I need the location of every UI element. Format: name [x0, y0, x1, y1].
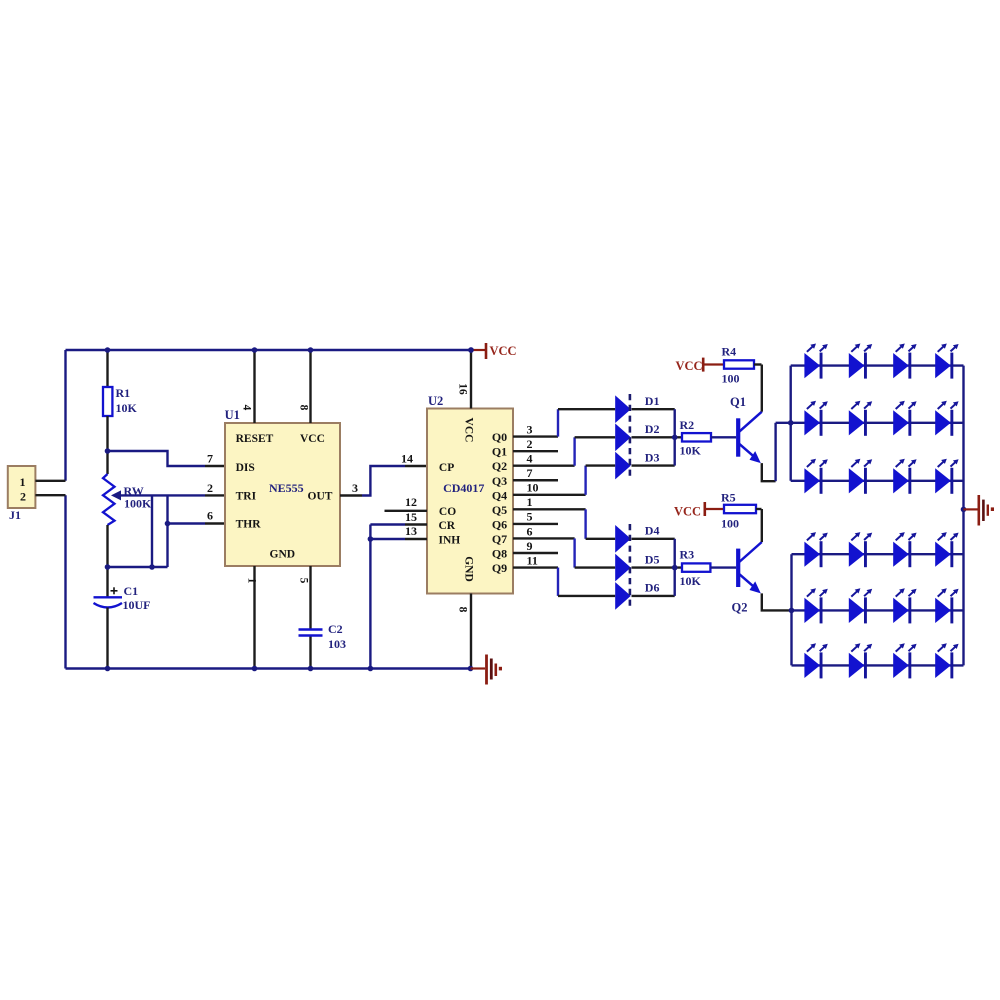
- svg-text:R1: R1: [116, 386, 131, 400]
- svg-text:8: 8: [457, 607, 469, 613]
- svg-text:14: 14: [401, 452, 413, 466]
- svg-text:4: 4: [241, 405, 253, 411]
- svg-text:CO: CO: [439, 506, 456, 518]
- svg-text:Q1: Q1: [730, 395, 746, 409]
- svg-text:5: 5: [527, 510, 533, 524]
- svg-text:D2: D2: [645, 422, 660, 436]
- svg-text:R4: R4: [722, 345, 737, 359]
- svg-text:OUT: OUT: [308, 491, 333, 503]
- svg-text:D5: D5: [645, 552, 660, 566]
- svg-text:7: 7: [527, 466, 533, 480]
- svg-text:1: 1: [246, 578, 258, 584]
- svg-text:2: 2: [20, 490, 26, 504]
- svg-text:11: 11: [527, 553, 538, 567]
- svg-text:4: 4: [527, 452, 533, 466]
- svg-text:6: 6: [527, 524, 533, 538]
- svg-text:INH: INH: [439, 534, 461, 546]
- svg-text:8: 8: [298, 405, 310, 411]
- svg-text:Q2: Q2: [732, 601, 748, 615]
- svg-text:R2: R2: [680, 418, 695, 432]
- svg-text:VCC: VCC: [674, 505, 701, 519]
- svg-text:Q7: Q7: [492, 532, 507, 546]
- svg-text:Q2: Q2: [492, 459, 507, 473]
- svg-text:6: 6: [207, 509, 213, 523]
- svg-text:100K: 100K: [124, 497, 152, 511]
- svg-text:R5: R5: [721, 491, 736, 505]
- svg-text:J1: J1: [9, 508, 21, 522]
- svg-text:D3: D3: [645, 450, 660, 464]
- svg-text:100: 100: [722, 371, 740, 385]
- svg-text:NE555: NE555: [269, 481, 304, 495]
- svg-text:TRI: TRI: [236, 491, 257, 503]
- svg-text:D6: D6: [645, 581, 660, 595]
- svg-text:D1: D1: [645, 394, 660, 408]
- svg-text:Q6: Q6: [492, 517, 507, 531]
- svg-text:10K: 10K: [116, 401, 138, 415]
- svg-text:10: 10: [527, 481, 539, 495]
- svg-text:3: 3: [527, 422, 533, 436]
- svg-text:12: 12: [405, 495, 417, 509]
- svg-text:VCC: VCC: [490, 344, 517, 358]
- svg-text:100: 100: [721, 517, 739, 531]
- svg-text:D4: D4: [645, 524, 660, 538]
- svg-text:RESET: RESET: [236, 433, 274, 445]
- svg-text:10K: 10K: [680, 574, 702, 588]
- svg-text:U2: U2: [428, 394, 443, 408]
- svg-text:VCC: VCC: [676, 359, 703, 373]
- svg-text:Q4: Q4: [492, 488, 507, 502]
- svg-text:16: 16: [457, 383, 469, 395]
- svg-text:7: 7: [207, 451, 213, 465]
- svg-text:5: 5: [298, 578, 310, 584]
- svg-text:15: 15: [405, 510, 417, 524]
- svg-text:2: 2: [527, 437, 533, 451]
- svg-text:Q1: Q1: [492, 445, 507, 459]
- svg-text:1: 1: [20, 475, 26, 489]
- svg-text:Q8: Q8: [492, 547, 507, 561]
- svg-text:13: 13: [405, 524, 417, 538]
- svg-text:VCC: VCC: [463, 418, 475, 443]
- svg-text:C1: C1: [124, 584, 139, 598]
- svg-text:THR: THR: [236, 518, 262, 530]
- svg-text:Q0: Q0: [492, 430, 507, 444]
- svg-text:DIS: DIS: [236, 462, 255, 474]
- svg-text:2: 2: [207, 481, 213, 495]
- svg-text:1: 1: [527, 495, 533, 509]
- svg-text:GND: GND: [463, 556, 475, 582]
- svg-text:GND: GND: [270, 549, 296, 561]
- svg-text:10K: 10K: [680, 443, 702, 457]
- svg-text:Q3: Q3: [492, 474, 507, 488]
- svg-text:C2: C2: [328, 622, 343, 636]
- svg-text:U1: U1: [225, 408, 240, 422]
- svg-text:CP: CP: [439, 462, 454, 474]
- svg-text:CR: CR: [439, 520, 456, 532]
- svg-text:3: 3: [352, 481, 358, 495]
- svg-text:Q5: Q5: [492, 503, 507, 517]
- svg-text:VCC: VCC: [300, 433, 325, 445]
- svg-text:103: 103: [328, 637, 346, 651]
- svg-text:Q9: Q9: [492, 561, 507, 575]
- svg-text:10UF: 10UF: [123, 598, 151, 612]
- svg-text:9: 9: [527, 539, 533, 553]
- svg-text:CD4017: CD4017: [443, 481, 484, 495]
- svg-text:R3: R3: [680, 548, 695, 562]
